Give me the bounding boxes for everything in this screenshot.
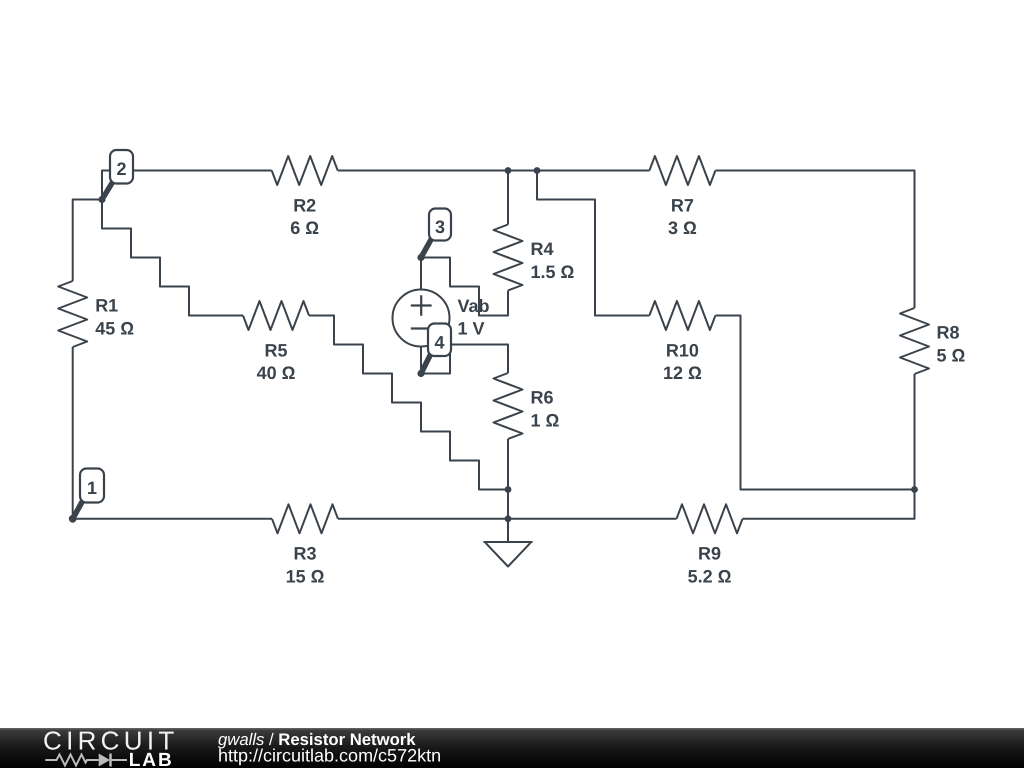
svg-text:R3: R3 [293,544,316,564]
svg-text:http://circuitlab.com/c572ktn: http://circuitlab.com/c572ktn [218,746,441,766]
svg-text:R4: R4 [531,239,554,259]
resistor R1 [58,281,87,347]
svg-text:3 Ω: 3 Ω [668,218,697,238]
resistor R7 [649,156,715,185]
svg-text:R2: R2 [293,195,316,215]
resistor R8 [900,308,929,374]
wire R6 bottom to bottom rail [507,439,509,519]
node junction R6 bottom [505,486,512,493]
node flag 1 [73,469,104,519]
resistor R10 [649,301,715,330]
wire R1 bottom to node1 [72,347,74,519]
svg-text:R8: R8 [937,323,960,343]
node flag 4 [421,324,451,374]
resistor R3 [272,504,338,533]
svg-text:R1: R1 [95,296,118,316]
footer logo squiggle resistor and diode [45,754,127,767]
wire R2 right to R7 left [338,170,650,172]
svg-text:R5: R5 [264,340,287,360]
node B top junction R10 branch [534,167,541,174]
node flag 3 [421,209,451,258]
voltage source Vab U1 [393,290,450,347]
svg-text:Vab: Vab [458,296,490,316]
wire R7 right to top-right corner down to R8 [715,171,914,309]
wire R4 bottom staircase to node3 [421,258,508,316]
svg-text:5.2 Ω: 5.2 Ω [688,566,732,586]
svg-text:45 Ω: 45 Ω [95,319,134,339]
svg-text:1: 1 [87,478,97,498]
svg-text:12 Ω: 12 Ω [663,363,702,383]
wire Vab bottom to node4 [420,347,422,374]
node 2 dot [98,196,105,203]
resistor R6 [494,373,523,439]
svg-text:15 Ω: 15 Ω [286,566,325,586]
node 4 dot [417,370,424,377]
resistor R2 [272,156,338,185]
resistor R5 [243,301,309,330]
svg-text:6 Ω: 6 Ω [290,218,319,238]
svg-text:1 V: 1 V [458,319,485,339]
wire node2 to R1 top [73,200,102,282]
svg-text:LAB: LAB [129,750,174,768]
resistor R9 [677,504,743,533]
wire R9 left to R3 right [338,518,677,520]
node junction ground [505,515,512,522]
svg-text:R10: R10 [666,340,699,360]
node junction right loop [911,486,918,493]
wire junction to R10 branch [537,171,649,316]
ground [484,542,533,567]
wire node4 to R6 top [421,345,508,374]
wire R5 right staircase to R6 bottom junction [309,316,508,490]
svg-text:4: 4 [434,332,444,352]
svg-text:1 Ω: 1 Ω [531,411,560,431]
svg-text:40 Ω: 40 Ω [257,363,296,383]
svg-text:R9: R9 [698,544,721,564]
wire node2 staircase to R5 left [102,200,243,316]
node 1 dot [69,515,77,523]
wire R3 left to node1 [73,518,272,520]
node 3 dot [417,254,424,261]
wire R10 right down to junction with R8 column [715,316,914,490]
svg-text:3: 3 [435,217,445,237]
svg-text:2: 2 [116,159,126,179]
resistor R4 [494,225,523,291]
node A top junction R4 [505,167,512,174]
svg-text:R6: R6 [531,388,554,408]
wire top rail junction to R4 top [507,171,509,225]
wire R8 bottom to bottom-right corner to R9 right [743,374,915,519]
svg-text:5 Ω: 5 Ω [937,346,966,366]
svg-text:1.5 Ω: 1.5 Ω [531,262,575,282]
svg-text:R7: R7 [671,195,694,215]
ground lead wire [507,519,509,542]
wire node2 corner to R2 left [102,171,272,200]
footer bar [0,728,1024,768]
wire node3 to Vab top [420,258,422,290]
node flag 2 [102,150,133,200]
